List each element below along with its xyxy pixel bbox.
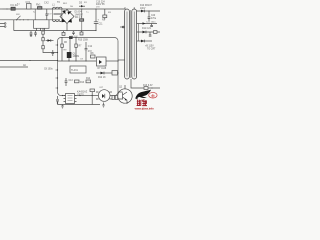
node H — [61, 37, 62, 38]
node G — [29, 60, 30, 61]
svg-text:C22 100u: C22 100u — [146, 22, 156, 24]
svg-text:25V: 25V — [96, 7, 100, 9]
svg-text:D7 4148: D7 4148 — [98, 68, 107, 70]
secondary output 4 — [139, 85, 160, 90]
logo swoosh — [135, 90, 151, 99]
svg-text:C20: C20 — [151, 15, 156, 17]
svg-text:TO CRT: TO CRT — [147, 49, 156, 51]
svg-text:R12 1K: R12 1K — [98, 77, 106, 79]
IC U5 — [97, 57, 119, 66]
diode D6 — [46, 39, 54, 42]
IC U3 — [64, 94, 77, 104]
wire left AC out upper — [0, 60, 58, 62]
bridge rectifier BR1 — [60, 10, 84, 31]
logo red characters — [137, 99, 147, 106]
IC U2 — [70, 66, 86, 73]
capacitor C5 — [62, 31, 65, 36]
svg-text:RV1: RV1 — [36, 4, 41, 7]
connector AC plug — [0, 9, 6, 27]
wire left AC out lower — [0, 64, 28, 67]
resistor R6 — [61, 42, 68, 47]
fuse F1 — [11, 3, 19, 10]
svg-text:470u: 470u — [151, 18, 157, 20]
svg-text:www.jdwx.info: www.jdwx.info — [134, 107, 154, 110]
module pin dots — [57, 44, 119, 96]
wire Q1 branch — [69, 38, 71, 53]
resistor R14 — [86, 78, 91, 83]
capacitor CX1 — [26, 1, 32, 9]
switch SW1 — [16, 14, 21, 21]
resistor R13 — [75, 80, 85, 84]
node E — [95, 8, 96, 9]
node I — [68, 60, 69, 61]
diode D7 — [96, 68, 112, 74]
svg-text:+B 115V: +B 115V — [145, 46, 154, 48]
resistor R15 — [90, 89, 95, 105]
svg-text:R2 4.7: R2 4.7 — [75, 17, 82, 19]
resistor R2 — [75, 8, 84, 30]
svg-text:TL431: TL431 — [71, 69, 78, 72]
svg-text:R14: R14 — [86, 78, 91, 80]
wire RV1 drop — [34, 9, 36, 20]
wire bottom rail — [58, 104, 101, 106]
capacitor C13 — [65, 78, 74, 86]
wire inner top — [61, 38, 63, 62]
wire top AC rail — [3, 8, 126, 10]
svg-text:R13: R13 — [80, 82, 85, 84]
svg-text:D11 C21: D11 C21 — [142, 28, 152, 30]
transformer T1 — [118, 7, 139, 88]
logo red ellipse — [149, 92, 157, 98]
secondary output 1b — [136, 22, 157, 27]
node K — [85, 60, 86, 61]
svg-text:100V: 100V — [140, 8, 146, 10]
label row inside box — [64, 40, 89, 61]
diode D5 — [79, 2, 85, 8]
resistor R7 — [75, 38, 82, 62]
svg-text:1N4007: 1N4007 — [75, 14, 84, 17]
label extras top — [17, 3, 112, 14]
svg-text:R10 150K: R10 150K — [78, 40, 89, 42]
small parts left of Q2 — [112, 96, 118, 100]
ground 2 — [102, 103, 105, 108]
capacitor CX2 — [44, 1, 49, 19]
node H2 — [75, 37, 76, 38]
resistor R4 chain — [42, 28, 58, 52]
svg-text:C12: C12 — [88, 46, 93, 48]
optocoupler U4 — [96, 90, 112, 102]
capacitor C2 — [30, 31, 33, 37]
capacitor C4 — [52, 50, 55, 56]
secondary output 1 — [136, 5, 160, 21]
module pin stubs — [56, 45, 58, 88]
node J — [75, 60, 76, 61]
svg-text:AC: AC — [23, 64, 27, 67]
module outline main board — [58, 38, 119, 96]
wire lower AC rail — [0, 19, 60, 21]
capacitor C14 — [56, 96, 59, 105]
node B — [19, 19, 20, 20]
svg-text:CX2: CX2 — [44, 1, 49, 4]
secondary output 3 — [136, 40, 156, 51]
transistor Q2 — [118, 85, 132, 104]
wire inner mid rail — [58, 60, 96, 62]
label U3 text — [77, 87, 104, 97]
ground — [61, 105, 64, 109]
resistor R12 — [98, 71, 118, 80]
secondary output 2 — [136, 28, 160, 36]
resistor RV1 — [36, 4, 42, 10]
node D — [27, 19, 28, 20]
node F — [95, 30, 96, 31]
resistor R3 — [102, 9, 107, 21]
capacitor C6 — [71, 31, 79, 39]
svg-text:C13: C13 — [69, 80, 74, 82]
resistor R5 — [80, 31, 83, 35]
capacitor C3 — [34, 31, 37, 37]
transistor Q1 — [67, 52, 80, 61]
capacitor C12 — [85, 42, 93, 61]
capacitor C11 — [94, 9, 103, 31]
inductor L1 — [52, 1, 62, 22]
wire DC return rail — [14, 30, 96, 32]
wire branch from lower rail down — [13, 20, 15, 31]
component on box edge — [69, 36, 73, 39]
node C — [23, 19, 24, 20]
svg-text:OPTO: OPTO — [77, 94, 84, 97]
svg-text:CX1: CX1 — [26, 1, 31, 4]
module box LF1 — [34, 20, 50, 31]
label text block — [48, 2, 105, 16]
svg-text:C8 100u: C8 100u — [44, 69, 53, 71]
resistor R8 — [91, 53, 96, 58]
node A — [6, 8, 7, 9]
wire secondary tap — [138, 24, 140, 42]
